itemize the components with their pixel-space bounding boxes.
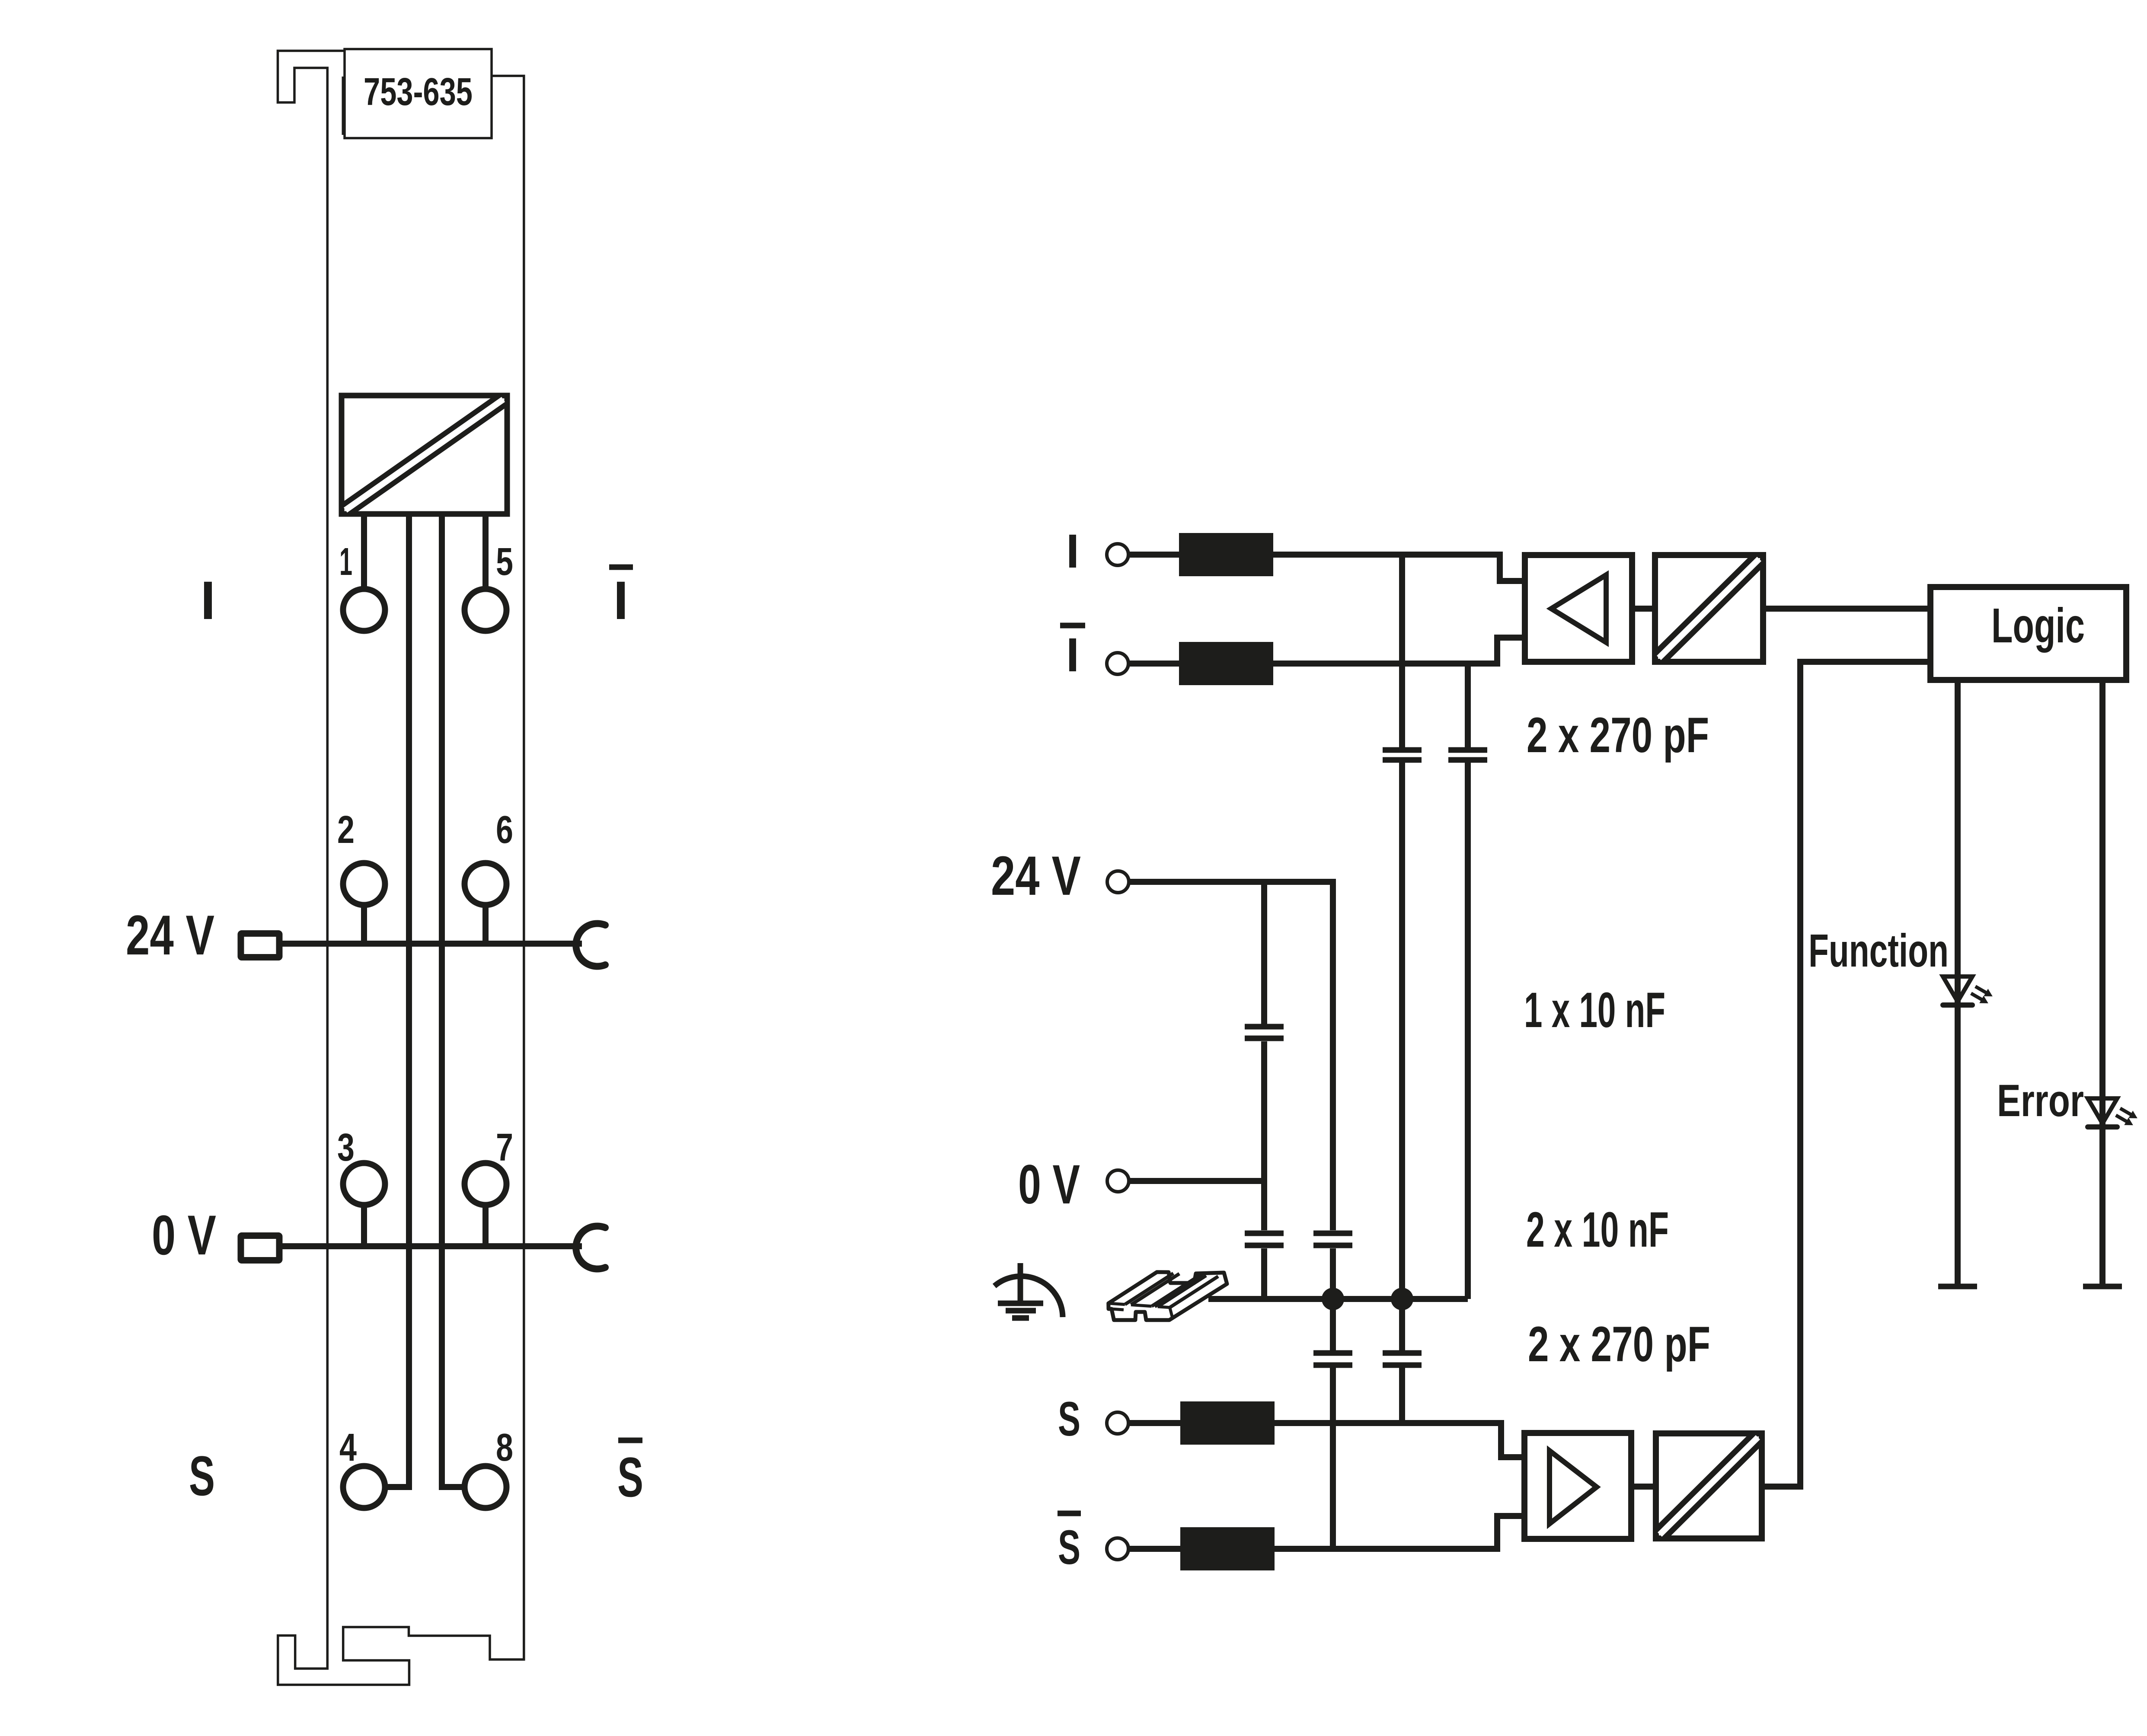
LED Function ground bar [1938,1284,1977,1289]
module body outline [278,51,524,1685]
terminal 24V [1107,871,1129,893]
svg-text:24 V: 24 V [991,845,1081,907]
wire I-bar to C2 [1465,664,1471,747]
svg-text:1: 1 [339,540,352,584]
pin 2 [343,863,385,905]
amplifier A2 (S) [1524,1433,1631,1539]
svg-text:I: I [613,571,629,631]
wire I [1128,555,1525,581]
filter L4 (S-bar) [1180,1527,1275,1570]
wire S [1128,1423,1524,1457]
module side tick [342,77,345,135]
amplifier A1 (I) [1525,555,1632,662]
24V feed line [281,941,582,947]
wire C1 to ground bus [1399,763,1405,1299]
wire stub pin5 [482,512,489,588]
pin 1 [343,589,385,631]
pin 3 [343,1163,385,1205]
svg-text:8: 8 [496,1426,513,1469]
svg-text:6: 6 [496,808,513,852]
terminal 0V [1107,1170,1129,1192]
24V socket arc [576,924,605,967]
dc/dc converter U2 (I) [1655,555,1763,662]
wire amp to dcdc (I) [1632,606,1655,612]
A/D converter U1 [342,396,507,514]
wire bus B (pins 8) [442,512,462,1487]
terminal S-bar [1107,1538,1128,1560]
0V socket arc [576,1226,605,1269]
capacitor C1 [1383,750,1422,760]
LED Error line [2099,680,2105,1286]
wire 0V [1129,1181,1264,1230]
wire stub pin3 [361,1207,367,1246]
wire dcdc S to logic [1762,662,1930,1487]
svg-text:0 V: 0 V [152,1203,216,1267]
svg-text:S: S [1058,1392,1080,1446]
dc/dc converter U3 (S) [1656,1433,1762,1538]
svg-text:2 x 10 nF: 2 x 10 nF [1526,1202,1669,1257]
svg-text:I: I [1066,629,1080,682]
svg-text:5: 5 [496,540,513,584]
capacitor C3 [1245,1027,1284,1038]
filter L2 (I-bar) [1179,642,1273,685]
wire C2 to ground bus [1465,763,1471,1299]
wire stub pin1 [361,512,367,588]
wire bus A (pins 4) [388,512,409,1487]
terminal I-bar [1107,653,1128,674]
wire amp to dcdc (S) [1631,1484,1656,1490]
svg-text:Function: Function [1808,924,1949,976]
filter L1 (I) [1179,533,1273,576]
wire I-bar [1128,638,1525,664]
label box 753-635 [345,49,492,138]
wire stub pin6 [482,907,489,944]
svg-text:Logic: Logic [1991,598,2085,653]
pin 4 [343,1466,385,1508]
LED D1 Function [1943,976,1972,1005]
wire 24V to C3 [1261,882,1267,1024]
wire C4 to ground bus [1261,1248,1267,1299]
wire bus to C7 [1330,1299,1336,1350]
pin 6 [465,863,507,905]
wire C7 to S-bar [1330,1368,1336,1549]
svg-text:Error: Error [1997,1075,2084,1126]
filter L3 (S) [1180,1401,1275,1445]
svg-text:I: I [1066,525,1080,578]
junction dot 1 [1322,1288,1344,1310]
svg-text:2: 2 [337,808,355,852]
U1 diagonal stripe [345,399,503,510]
0V feed tab [241,1236,279,1261]
ground bus [1208,1296,1468,1302]
svg-text:2 x 270 pF: 2 x 270 pF [1527,708,1709,763]
DIN rail (carrier rail) [1109,1272,1227,1320]
svg-text:2 x 270 pF: 2 x 270 pF [1528,1317,1710,1372]
capacitor C2 [1448,750,1487,760]
LED D2 Error [2088,1098,2117,1127]
svg-text:S: S [189,1444,215,1507]
wire dcdc to logic [1763,606,1930,612]
pin 7 [465,1163,507,1205]
pin 5 [465,589,507,631]
capacitor C6 [1383,1353,1422,1365]
wire 24V [1129,882,1333,1230]
wire I to C1 [1399,555,1405,747]
LED Function line [1955,680,1961,1286]
svg-text:1 x 10 nF: 1 x 10 nF [1524,983,1665,1038]
svg-text:S: S [1058,1520,1080,1574]
svg-text:753-635: 753-635 [364,70,473,114]
junction dot 2 [1391,1288,1413,1310]
24V feed tab [241,934,279,957]
wire stub pin2 [361,907,367,944]
capacitor C7 [1313,1353,1352,1365]
functional earth symbol [994,1263,1063,1318]
svg-text:7: 7 [496,1126,513,1169]
pin 8 [465,1466,507,1508]
wire S-bar [1128,1516,1524,1549]
wire C6 to S [1399,1368,1405,1423]
wire bus to C6 [1399,1299,1405,1350]
svg-text:24 V: 24 V [126,903,214,967]
capacitor C4 [1245,1233,1284,1245]
svg-text:S: S [617,1446,643,1509]
wire C3 to 0V [1261,1041,1267,1181]
terminal I [1107,544,1128,565]
wire stub pin7 [482,1207,489,1246]
svg-text:3: 3 [337,1126,355,1169]
svg-text:I: I [201,571,216,631]
wire C5 to ground bus [1330,1248,1336,1299]
svg-text:0 V: 0 V [1018,1154,1080,1216]
svg-text:4: 4 [339,1426,357,1469]
0V feed line [281,1243,582,1249]
terminal S [1107,1412,1128,1434]
capacitor C5 [1313,1233,1352,1245]
LED Error ground bar [2083,1284,2122,1289]
logic block [1930,587,2126,680]
